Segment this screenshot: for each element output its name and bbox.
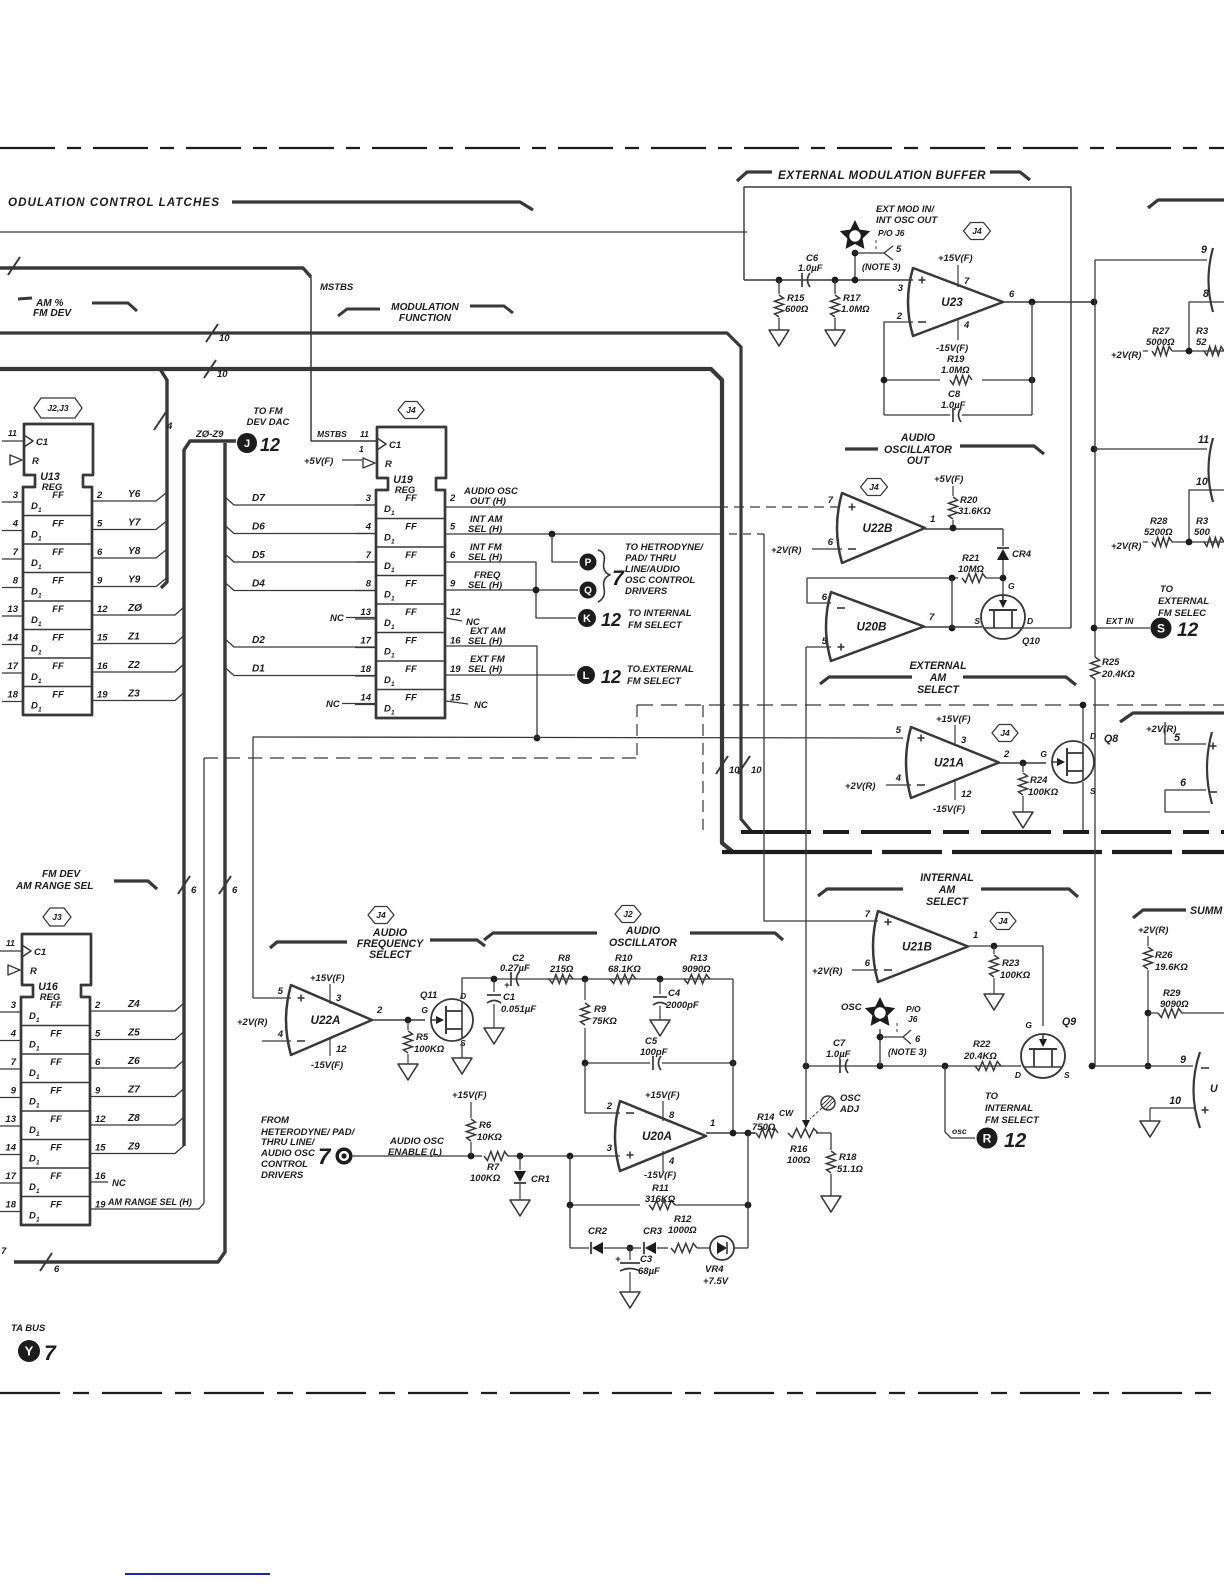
svg-text:2: 2 [896, 311, 903, 322]
wire star stem to line [879, 1029, 881, 1066]
op-amp U21B [873, 911, 968, 982]
svg-text:100KΩ: 100KΩ [414, 1044, 445, 1055]
svg-text:R12: R12 [674, 1214, 692, 1225]
ground for C4 [650, 1020, 670, 1036]
stub pin 11 U13 C1 [2, 440, 24, 442]
wire Z2 from U13 [92, 664, 184, 672]
resistor R26 [1144, 947, 1153, 969]
svg-text:R3: R3 [1196, 326, 1209, 337]
wire FREQ SEL to connector Q [446, 589, 578, 591]
resistor R23 [993, 946, 995, 954]
resistor R19 feedback [884, 379, 940, 381]
svg-text:P/O: P/O [906, 1004, 921, 1014]
resistor R16 pot body [748, 1132, 756, 1134]
bus AM/FM DEV 10-wide [0, 333, 752, 832]
svg-text:ZØ-Z9: ZØ-Z9 [195, 429, 224, 440]
svg-text:D: D [384, 647, 391, 658]
svg-text:8: 8 [669, 1110, 675, 1121]
wire U21B output [968, 946, 1043, 1026]
pot OSC ADJ trimmer [821, 1096, 835, 1110]
wire star stem and 5 bracket [854, 252, 856, 280]
wire Q10 drain to box edge [1022, 627, 1071, 629]
svg-text:CR2: CR2 [588, 1226, 608, 1237]
wire ZØ from U13 [92, 607, 184, 615]
svg-text:3: 3 [898, 283, 904, 294]
svg-text:1: 1 [36, 1131, 40, 1138]
wire Y6 from U13 [92, 493, 166, 501]
hexagon J4 near U21B [990, 913, 1016, 930]
svg-text:R23: R23 [1002, 958, 1020, 969]
ground for Q11 [452, 1058, 472, 1074]
svg-text:1: 1 [38, 536, 42, 543]
svg-text:316KΩ: 316KΩ [645, 1194, 676, 1205]
connector star EXT MOD IN [840, 220, 870, 249]
svg-text:D1: D1 [252, 664, 265, 675]
resistor R24 [1022, 763, 1024, 772]
svg-text:D: D [31, 701, 38, 712]
svg-text:D: D [29, 1040, 36, 1051]
svg-text:2: 2 [1003, 749, 1010, 760]
blue underline mark bottom left [125, 1573, 270, 1575]
slash 4 on Y bus [154, 412, 166, 430]
svg-text:19.6KΩ: 19.6KΩ [1155, 962, 1188, 973]
svg-text:4: 4 [895, 773, 902, 784]
svg-text:100pF: 100pF [640, 1047, 668, 1058]
svg-text:EXT IN: EXT IN [1106, 616, 1134, 626]
svg-text:C3: C3 [640, 1254, 653, 1265]
svg-text:S: S [1090, 786, 1096, 796]
svg-text:U22A: U22A [311, 1014, 341, 1027]
svg-text:20.4KΩ: 20.4KΩ [963, 1051, 997, 1062]
svg-text:75KΩ: 75KΩ [592, 1016, 617, 1027]
hexagon J4 audio frequency select [368, 907, 394, 924]
svg-text:1: 1 [36, 1217, 40, 1224]
svg-text:2: 2 [376, 1005, 383, 1016]
svg-text:5200Ω: 5200Ω [1144, 527, 1173, 538]
ground for R15 [769, 330, 789, 346]
wire D5 from data bus to U19 [225, 554, 376, 562]
svg-text:D: D [31, 644, 38, 655]
svg-text:R16: R16 [790, 1144, 808, 1155]
svg-text:14: 14 [5, 1143, 16, 1154]
capacitor C3 [629, 1248, 631, 1260]
wire audio osc enable [352, 1155, 470, 1157]
svg-text:D2: D2 [252, 635, 265, 646]
wire Y9 from U13 [92, 579, 166, 587]
svg-text:AM: AM [938, 884, 957, 896]
op-amp U21A [906, 727, 999, 798]
svg-text:U21B: U21B [902, 941, 932, 954]
svg-text:D: D [29, 1154, 36, 1165]
svg-text:12: 12 [97, 604, 108, 615]
svg-text:2: 2 [606, 1101, 613, 1112]
svg-text:FF: FF [405, 579, 417, 590]
wire Q8 source down [1082, 782, 1084, 830]
diode CR2 [570, 1247, 589, 1249]
svg-text:10: 10 [1196, 476, 1208, 488]
wire U20B feedback [951, 578, 953, 628]
svg-text:(NOTE 3): (NOTE 3) [862, 262, 901, 272]
svg-text:Y8: Y8 [128, 546, 141, 557]
wire U23 inverting input loop [884, 322, 913, 415]
svg-text:2: 2 [96, 490, 103, 501]
svg-text:J4: J4 [998, 916, 1008, 926]
connector Y7 data bus [18, 1340, 40, 1362]
wire U20B output to Q10 source [924, 626, 982, 628]
label J4 hexagon above U19 [398, 402, 424, 419]
svg-text:R7: R7 [487, 1162, 500, 1173]
svg-text:Z9: Z9 [127, 1142, 140, 1153]
svg-text:0.27µF: 0.27µF [500, 963, 530, 974]
wire U22A output to Q11 [372, 1019, 425, 1021]
svg-text:DRIVERS: DRIVERS [261, 1170, 304, 1181]
svg-text:5: 5 [97, 519, 103, 530]
svg-text:FF: FF [405, 664, 417, 675]
svg-text:+15V(F): +15V(F) [938, 253, 973, 264]
brace and label 7 drivers [598, 550, 610, 602]
svg-text:1: 1 [36, 1160, 40, 1167]
svg-text:3: 3 [336, 993, 342, 1004]
svg-text:5: 5 [896, 725, 902, 736]
svg-text:NC: NC [112, 1178, 126, 1189]
power stub -15V(F) U22A pin 12 [329, 1037, 331, 1056]
svg-text:ODULATION CONTROL LATCHES: ODULATION CONTROL LATCHES [8, 196, 220, 209]
svg-text:J4: J4 [406, 405, 416, 415]
wire INT AM SEL(H) with junction [446, 533, 715, 535]
svg-text:D: D [384, 533, 391, 544]
svg-text:1.0MΩ: 1.0MΩ [841, 304, 870, 315]
svg-text:OUT: OUT [907, 455, 931, 467]
svg-text:K: K [583, 613, 591, 625]
resistor R10 [610, 975, 636, 984]
resistor R21 [807, 577, 958, 579]
wire U20B minus input loop [807, 578, 831, 603]
svg-text:U22B: U22B [863, 522, 893, 535]
transistor Q9 [1021, 1034, 1065, 1078]
svg-text:R24: R24 [1030, 775, 1048, 786]
svg-text:DEV DAC: DEV DAC [247, 417, 290, 428]
svg-text:+7.5V: +7.5V [703, 1276, 729, 1287]
svg-text:FF: FF [52, 633, 64, 644]
svg-text:FM SELECT: FM SELECT [985, 1115, 1040, 1126]
svg-text:R28: R28 [1150, 516, 1168, 527]
svg-text:R25: R25 [1102, 657, 1120, 668]
svg-text:Z3: Z3 [127, 689, 140, 700]
svg-text:J6: J6 [908, 1014, 918, 1024]
diode CR1 [519, 1156, 521, 1170]
svg-text:10MΩ: 10MΩ [958, 564, 984, 575]
svg-text:+15V(F): +15V(F) [936, 714, 971, 725]
wire D7 from data bus to U19 [225, 497, 376, 505]
svg-text:MSTBS: MSTBS [317, 429, 347, 439]
svg-text:CR4: CR4 [1012, 549, 1032, 560]
svg-text:+: + [504, 980, 510, 991]
svg-text:ZØ: ZØ [127, 603, 143, 614]
svg-text:11: 11 [8, 428, 17, 438]
svg-text:Q10: Q10 [1022, 636, 1041, 647]
transistor Q10 [981, 595, 1025, 639]
svg-text:500: 500 [1194, 527, 1211, 538]
stub pin 11 U16 C1 [0, 950, 22, 952]
register U19 [376, 427, 446, 718]
svg-text:7: 7 [366, 550, 372, 561]
svg-text:3: 3 [607, 1143, 613, 1154]
svg-text:17: 17 [7, 661, 18, 672]
svg-text:U21A: U21A [934, 757, 964, 770]
svg-text:SELECT: SELECT [369, 949, 412, 961]
wire EXT FM SEL to connector L [446, 674, 575, 676]
connector S12 [1151, 618, 1172, 639]
svg-text:J4: J4 [869, 482, 879, 492]
resistor R9 [584, 979, 586, 1000]
svg-text:OSC: OSC [841, 1002, 862, 1013]
svg-text:9: 9 [11, 1086, 17, 1097]
svg-text:U20A: U20A [642, 1130, 672, 1143]
wire U21A output to Q8 [999, 762, 1046, 764]
svg-text:R8: R8 [558, 953, 571, 964]
svg-text:R29: R29 [1163, 988, 1181, 999]
svg-text:FF: FF [52, 519, 64, 530]
svg-text:14: 14 [7, 633, 18, 644]
svg-text:12: 12 [450, 607, 461, 618]
svg-text:C1: C1 [36, 437, 48, 448]
page bottom boundary dashed line [0, 1392, 1224, 1394]
wire U22A pin 5 feed [253, 997, 291, 999]
hexagon J4 in buffer box [964, 223, 991, 240]
svg-text:1.0MΩ: 1.0MΩ [941, 365, 970, 376]
resistor R29 [1148, 1012, 1158, 1014]
svg-text:+2V(R): +2V(R) [771, 545, 801, 556]
svg-text:FF: FF [405, 550, 417, 561]
svg-text:D: D [31, 501, 38, 512]
svg-text:7: 7 [1, 1246, 7, 1257]
wire Q11 source to ground [461, 1042, 463, 1058]
boundary dashed corner vertical [636, 705, 638, 758]
svg-text:10: 10 [751, 765, 762, 776]
wire EXT IN to connector S [1091, 625, 1098, 632]
svg-text:G: G [421, 1005, 428, 1015]
svg-text:EXTERNAL: EXTERNAL [1158, 596, 1209, 607]
bus heavy lower [722, 850, 1224, 854]
connector K [578, 609, 596, 627]
svg-text:68.1KΩ: 68.1KΩ [608, 964, 641, 975]
resistor R25 [1091, 657, 1100, 679]
bracket +2V(R) top right [1120, 713, 1224, 722]
svg-text:12: 12 [1004, 1130, 1026, 1152]
wire Z5 from U16 [90, 1032, 184, 1040]
svg-text:Q: Q [584, 586, 592, 597]
boundary dashed line mid left [204, 757, 637, 759]
wire input line to U23 [744, 279, 913, 281]
wire U22B output [925, 528, 1003, 530]
zener VR4 [710, 1236, 734, 1260]
bus MSTBS from latches [0, 268, 311, 277]
svg-text:9: 9 [1201, 244, 1207, 256]
svg-text:6: 6 [450, 550, 456, 561]
label J2 J3 hexagon [34, 398, 82, 418]
svg-text:Z4: Z4 [127, 999, 140, 1010]
section bracket top right corner [1148, 200, 1224, 208]
wire Z3 from U13 [92, 693, 184, 701]
bus D0-D7 vertical 6-wide [14, 443, 225, 1262]
svg-text:U23: U23 [941, 296, 963, 309]
svg-text:20.4KΩ: 20.4KΩ [1101, 669, 1135, 680]
svg-text:18: 18 [360, 664, 371, 675]
svg-text:D: D [31, 672, 38, 683]
svg-text:AM: AM [929, 672, 948, 684]
svg-text:6: 6 [191, 885, 197, 896]
svg-text:DRIVERS: DRIVERS [625, 586, 668, 597]
svg-text:1: 1 [36, 1074, 40, 1081]
wire off-page fm op-amp pin 5 [1165, 722, 1206, 744]
svg-text:D7: D7 [252, 493, 266, 504]
svg-text:6: 6 [97, 547, 103, 558]
svg-text:1: 1 [391, 596, 395, 603]
svg-text:1: 1 [391, 624, 395, 631]
svg-text:EXT MOD IN/: EXT MOD IN/ [876, 204, 935, 215]
wire U20A output [706, 1132, 755, 1134]
svg-text:+2V(R): +2V(R) [1138, 925, 1168, 936]
svg-text:12: 12 [601, 610, 621, 630]
svg-text:6: 6 [915, 1034, 921, 1045]
slash 10 pair at bus bend [716, 756, 728, 774]
wire horizontal rule under latches [0, 231, 747, 233]
wire off-page op-amp pin 10 [1189, 490, 1224, 542]
power stub -15V(F) U21A pin 12 [954, 780, 956, 800]
svg-text:R15: R15 [787, 293, 805, 304]
svg-text:2: 2 [449, 493, 456, 504]
svg-text:C7: C7 [833, 1038, 846, 1049]
svg-text:14: 14 [360, 693, 371, 704]
svg-text:FM DEV: FM DEV [33, 308, 72, 319]
svg-text:D: D [384, 675, 391, 686]
svg-text:OSCILLATOR: OSCILLATOR [609, 937, 677, 949]
svg-text:R22: R22 [973, 1039, 991, 1050]
section box external modulation buffer [744, 187, 1071, 628]
ground for R18 [821, 1196, 841, 1212]
svg-text:TO HETRODYNE/: TO HETRODYNE/ [625, 542, 704, 553]
svg-text:R20: R20 [960, 495, 978, 506]
wire Q11 drain to oscillator input [462, 978, 494, 999]
svg-text:1: 1 [391, 653, 395, 660]
svg-text:7: 7 [929, 612, 935, 623]
wire Z7 from U16 [90, 1089, 184, 1097]
svg-text:D: D [31, 558, 38, 569]
op-amp U23 [908, 268, 1003, 336]
svg-text:(NOTE 3): (NOTE 3) [888, 1047, 927, 1057]
wire R11 feedback line [569, 1156, 571, 1205]
svg-text:9090Ω: 9090Ω [682, 964, 711, 975]
svg-text:19: 19 [97, 690, 108, 701]
op-amp U20A [615, 1101, 706, 1171]
connector R12 internal fm [977, 1128, 998, 1149]
svg-text:SELECT: SELECT [917, 684, 960, 696]
svg-text:100KΩ: 100KΩ [470, 1173, 501, 1184]
svg-text:D: D [31, 587, 38, 598]
wire Z9 from U16 [90, 1146, 184, 1154]
svg-text:+2V(R): +2V(R) [845, 781, 875, 792]
wire D2 from data bus to U19 [225, 639, 376, 647]
hexagon J2 audio oscillator [615, 906, 641, 923]
wire Q8 drain up to boundary [1082, 705, 1084, 742]
svg-text:1: 1 [38, 650, 42, 657]
svg-text:J3: J3 [52, 912, 62, 922]
svg-text:6: 6 [95, 1057, 101, 1068]
svg-text:7: 7 [964, 276, 970, 287]
off-page summing op-amp arc [1194, 1052, 1201, 1128]
wire EXT AM SEL down [446, 646, 537, 738]
svg-text:CR1: CR1 [531, 1174, 550, 1185]
svg-text:+2V(R): +2V(R) [812, 966, 842, 977]
svg-text:1.0µF: 1.0µF [941, 400, 966, 411]
svg-text:TO: TO [985, 1091, 999, 1102]
svg-text:7: 7 [612, 567, 625, 590]
svg-text:Y9: Y9 [128, 575, 141, 586]
svg-text:Y7: Y7 [128, 518, 142, 529]
svg-text:9090Ω: 9090Ω [1160, 999, 1189, 1010]
wire off-page op-amp pin 8 [1189, 302, 1224, 351]
svg-text:Q8: Q8 [1104, 733, 1118, 745]
svg-text:15: 15 [97, 633, 108, 644]
ground for R17 [825, 330, 845, 346]
wire right leg of oscillator [732, 979, 734, 1063]
svg-text:2: 2 [94, 1000, 101, 1011]
slash 6 on Z bus [178, 876, 190, 894]
resistor R12 [671, 1244, 697, 1253]
svg-text:FF: FF [50, 1171, 62, 1182]
off-page op-amp arc lower [1209, 438, 1214, 502]
resistor R7 [470, 1155, 482, 1157]
svg-text:11: 11 [360, 429, 369, 439]
diode CR3 [627, 1245, 634, 1252]
wire D1 from data bus to U19 [225, 668, 376, 676]
svg-text:1: 1 [391, 681, 395, 688]
svg-text:FF: FF [405, 522, 417, 533]
svg-text:FF: FF [50, 1086, 62, 1097]
ground for summing plus input [1140, 1121, 1160, 1137]
resistor R17 [832, 277, 839, 284]
svg-text:D: D [29, 1182, 36, 1193]
svg-text:10KΩ: 10KΩ [477, 1132, 502, 1143]
capacitor C6 [801, 273, 803, 287]
svg-text:D: D [29, 1125, 36, 1136]
svg-text:FM DEV: FM DEV [42, 869, 81, 880]
svg-text:L: L [583, 670, 590, 682]
svg-text:C5: C5 [645, 1036, 658, 1047]
resistor R22 [975, 1062, 1001, 1071]
svg-text:TO INTERNAL: TO INTERNAL [628, 608, 692, 619]
svg-text:1: 1 [36, 1103, 40, 1110]
svg-text:OSC CONTROL: OSC CONTROL [625, 575, 695, 586]
svg-text:FF: FF [50, 1143, 62, 1154]
svg-text:TO: TO [1160, 584, 1174, 595]
wire Z8 from U16 [90, 1117, 184, 1125]
svg-text:1: 1 [391, 567, 395, 574]
svg-text:P: P [585, 558, 592, 569]
svg-text:D: D [384, 561, 391, 572]
svg-text:-15V(F): -15V(F) [311, 1060, 343, 1071]
svg-text:FF: FF [52, 547, 64, 558]
svg-text:12: 12 [95, 1114, 106, 1125]
svg-text:ADJ: ADJ [839, 1104, 860, 1115]
stub NC U16 pin 16 [90, 1181, 108, 1183]
svg-text:Q9: Q9 [1062, 1016, 1076, 1028]
wire to off-page op-amp pin 9 [1095, 259, 1207, 261]
svg-text:7: 7 [318, 1144, 332, 1169]
svg-text:+15V(F): +15V(F) [310, 973, 345, 984]
svg-text:R9: R9 [594, 1004, 607, 1015]
svg-text:G: G [1025, 1020, 1032, 1030]
